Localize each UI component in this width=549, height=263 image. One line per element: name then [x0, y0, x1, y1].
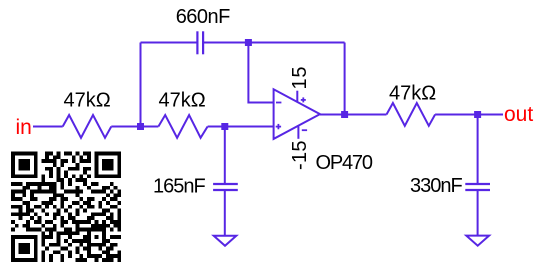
wire node C down to inverting input: [248, 43, 273, 103]
node E junction dot: [474, 111, 481, 118]
wire op-amp output to node D: [320, 114, 345, 116]
node A junction dot: [137, 123, 144, 130]
wire feedback rail left segment: [141, 42, 198, 44]
wire node B down to C1: [224, 127, 226, 185]
node C junction dot on feedback rail: [245, 39, 252, 46]
wire node E down to C3: [477, 115, 479, 185]
ground symbol left: [214, 236, 237, 246]
op-amp U1 triangle: [274, 89, 320, 139]
svg-text:47kΩ: 47kΩ: [159, 90, 206, 112]
wire in to R1: [33, 126, 63, 128]
svg-text:330nF: 330nF: [410, 175, 462, 197]
resistor R2: [158, 115, 207, 138]
svg-text:47kΩ: 47kΩ: [64, 90, 111, 112]
capacitor C1 165nF: [213, 184, 238, 190]
wire R1 to node A: [111, 126, 140, 128]
svg-text:660nF: 660nF: [176, 6, 230, 28]
svg-text:165nF: 165nF: [153, 175, 205, 197]
svg-text:47kΩ: 47kΩ: [389, 83, 436, 105]
wire node E to out: [478, 114, 503, 116]
op-amp negative supply minus marker: [302, 129, 307, 131]
op-amp inverting input minus marker: [276, 102, 281, 104]
capacitor C3 330nF: [465, 184, 490, 190]
wire C1 to ground: [224, 190, 226, 236]
wire node A up to feedback rail: [140, 43, 142, 127]
svg-text:OP470: OP470: [316, 152, 373, 174]
wire R3 to node E: [435, 114, 478, 116]
op-amp negative supply pin stub: [297, 126, 299, 139]
node D junction dot: [341, 111, 348, 118]
QR code: [11, 152, 121, 262]
svg-text:-15: -15: [289, 140, 311, 170]
resistor R1: [63, 115, 112, 138]
resistor R3: [387, 103, 436, 126]
ground symbol right: [466, 236, 489, 246]
svg-text:out: out: [504, 103, 533, 126]
node B junction dot: [221, 123, 228, 130]
op-amp positive supply plus marker: [301, 97, 306, 102]
svg-text:15: 15: [289, 66, 311, 90]
wire R2 to node B: [208, 126, 225, 128]
wire node A to R2: [141, 126, 159, 128]
wire node D to R3: [345, 114, 387, 116]
op-amp positive supply pin stub: [296, 91, 298, 103]
op-amp noninverting input plus marker: [276, 124, 281, 129]
wire feedback rail down to output node D: [344, 43, 346, 115]
capacitor C2 660nF: [197, 31, 203, 54]
svg-text:in: in: [16, 116, 32, 139]
wire node B to op-amp noninverting input: [225, 126, 274, 128]
wire feedback rail right segment: [203, 42, 345, 44]
wire C3 to ground: [477, 190, 479, 236]
